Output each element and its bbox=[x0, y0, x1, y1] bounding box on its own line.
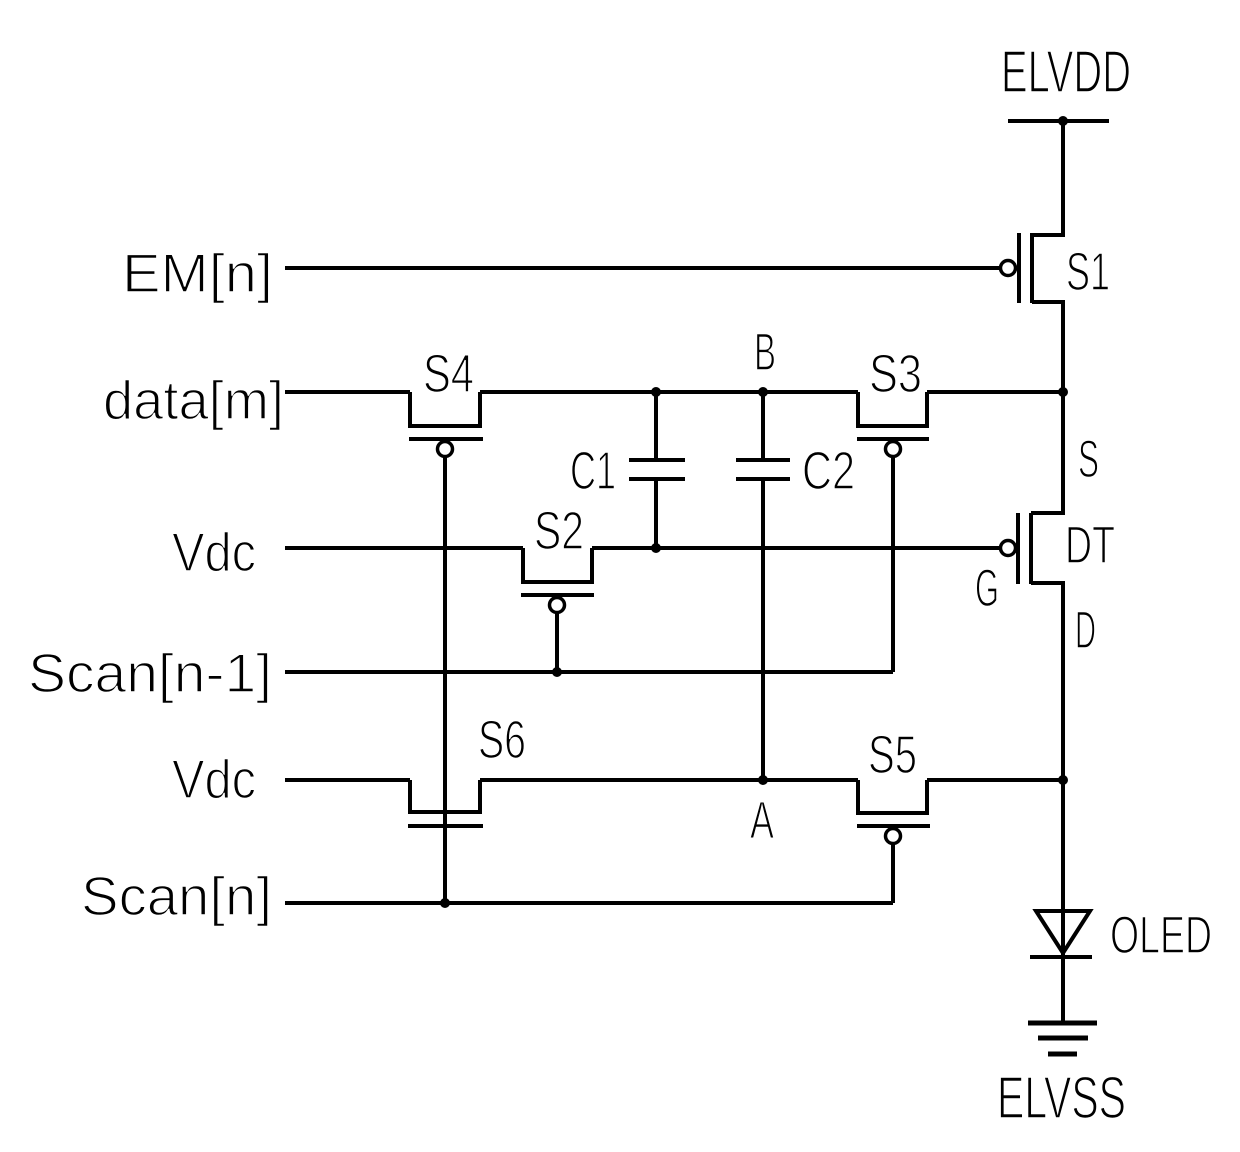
transistor S6 gate bar bbox=[408, 824, 483, 828]
svg-text:S5: S5 bbox=[868, 725, 917, 785]
svg-text:D: D bbox=[1075, 601, 1096, 660]
junction dot S2 gate / Scan[n-1] bbox=[552, 667, 562, 677]
wire data[m] line left segment bbox=[285, 390, 410, 394]
svg-text:data[m]: data[m] bbox=[103, 369, 284, 431]
capacitor C2 top plate bbox=[736, 458, 790, 462]
svg-text:S2: S2 bbox=[534, 501, 584, 561]
junction dot S4 gate / Scan[n] bbox=[440, 898, 450, 908]
wire Vdc lower line left segment bbox=[285, 778, 410, 782]
transistor S5 gate bubble bbox=[886, 829, 901, 844]
junction dot Vdc lower / D node bbox=[1058, 775, 1068, 785]
transistor S4 gate bar bbox=[409, 437, 483, 441]
junction dot at ELVDD rail bbox=[1058, 116, 1068, 126]
transistor DT channel bar bbox=[1029, 513, 1033, 584]
wire Vdc upper line left segment bbox=[285, 546, 523, 550]
wire Scan[n] line bbox=[285, 901, 893, 905]
svg-text:EM[n]: EM[n] bbox=[122, 242, 273, 304]
wire OLED to ground bbox=[1061, 957, 1065, 1023]
wire S4 gate down to Scan[n] bbox=[443, 456, 447, 903]
svg-text:C2: C2 bbox=[802, 441, 855, 501]
wire S1 drain down to data node bbox=[1032, 302, 1063, 392]
ELVDD power rail bbox=[1008, 119, 1109, 123]
svg-text:Vdc: Vdc bbox=[172, 521, 256, 583]
svg-text:C1: C1 bbox=[570, 441, 616, 501]
transistor S3 gate bubble bbox=[886, 442, 901, 457]
transistor DT gate bubble bbox=[1001, 541, 1016, 556]
capacitor C1 bottom plate bbox=[629, 477, 685, 481]
svg-text:Vdc: Vdc bbox=[172, 748, 256, 810]
wire DT drain down to OLED bbox=[1031, 583, 1063, 957]
transistor S2 gate bubble bbox=[550, 598, 565, 613]
capacitor C1 bottom lead bbox=[654, 479, 658, 548]
diode OLED cathode bar bbox=[1030, 955, 1092, 959]
svg-text:DT: DT bbox=[1065, 516, 1115, 575]
wire Vdc upper line right segment to DT gate bbox=[592, 546, 1001, 550]
wire C2 bottom lead down to node A bbox=[761, 479, 765, 780]
transistor S5 gate bar bbox=[857, 824, 930, 828]
svg-text:S6: S6 bbox=[478, 710, 526, 770]
transistor S3 gate bar bbox=[857, 437, 929, 441]
svg-text:A: A bbox=[750, 791, 774, 850]
wire S node into DT source bbox=[1031, 392, 1063, 513]
transistor S6 channel bracket bbox=[410, 780, 480, 812]
ground ELVSS bar 2 bbox=[1038, 1036, 1088, 1041]
wire S5 gate down to Scan[n] corner bbox=[891, 843, 895, 903]
wire S2 gate down to Scan[n-1] bbox=[555, 612, 559, 672]
transistor S1 channel bar bbox=[1030, 233, 1034, 303]
transistor S1 gate bar bbox=[1017, 233, 1021, 303]
wire data line middle segment bbox=[480, 390, 858, 394]
transistor DT gate bar bbox=[1016, 513, 1020, 584]
junction dot C1 bottom / Vdc line bbox=[651, 543, 661, 553]
wire EM[n] to S1 gate bbox=[285, 266, 1001, 270]
svg-text:G: G bbox=[975, 559, 999, 618]
svg-text:ELVDD: ELVDD bbox=[1001, 39, 1131, 105]
svg-text:Scan[n]: Scan[n] bbox=[81, 865, 272, 927]
node B junction dot bbox=[758, 387, 768, 397]
transistor S3 channel bracket bbox=[858, 392, 927, 426]
transistor S4 gate bubble bbox=[438, 442, 453, 457]
transistor S2 gate bar bbox=[521, 593, 594, 597]
wire Vdc lower line middle segment bbox=[480, 778, 858, 782]
transistor S2 channel bracket bbox=[523, 548, 592, 582]
junction dot data line / S node bbox=[1058, 387, 1068, 397]
svg-text:ELVSS: ELVSS bbox=[997, 1065, 1126, 1131]
wire Scan[n-1] line bbox=[285, 670, 893, 674]
transistor S4 channel bracket bbox=[410, 392, 480, 426]
capacitor C2 top lead bbox=[761, 392, 765, 460]
svg-text:S1: S1 bbox=[1066, 242, 1110, 302]
junction dot C1 top / data line bbox=[651, 387, 661, 397]
diode OLED triangle bbox=[1036, 911, 1090, 953]
ground ELVSS bar 1 bbox=[1028, 1021, 1097, 1026]
wire Vdc lower line right segment to D node bbox=[927, 778, 1063, 782]
wire S3 gate down to Scan[n-1] bbox=[891, 456, 895, 672]
svg-text:S4: S4 bbox=[423, 344, 474, 404]
transistor S1 gate bubble bbox=[1001, 261, 1016, 276]
ground ELVSS bar 3 bbox=[1048, 1052, 1077, 1057]
svg-text:B: B bbox=[754, 323, 776, 382]
transistor S5 channel bracket bbox=[858, 780, 927, 813]
capacitor C1 top lead bbox=[654, 392, 658, 460]
svg-text:OLED: OLED bbox=[1110, 906, 1212, 965]
wire data line right segment to S node bbox=[927, 390, 1063, 394]
capacitor C2 bottom plate bbox=[736, 477, 790, 481]
wire ELVDD rail to S1 source bbox=[1032, 121, 1063, 235]
node A junction dot bbox=[758, 775, 768, 785]
capacitor C1 top plate bbox=[629, 458, 685, 462]
svg-text:S3: S3 bbox=[869, 344, 922, 404]
svg-text:S: S bbox=[1078, 430, 1099, 489]
svg-text:Scan[n-1]: Scan[n-1] bbox=[28, 642, 272, 704]
